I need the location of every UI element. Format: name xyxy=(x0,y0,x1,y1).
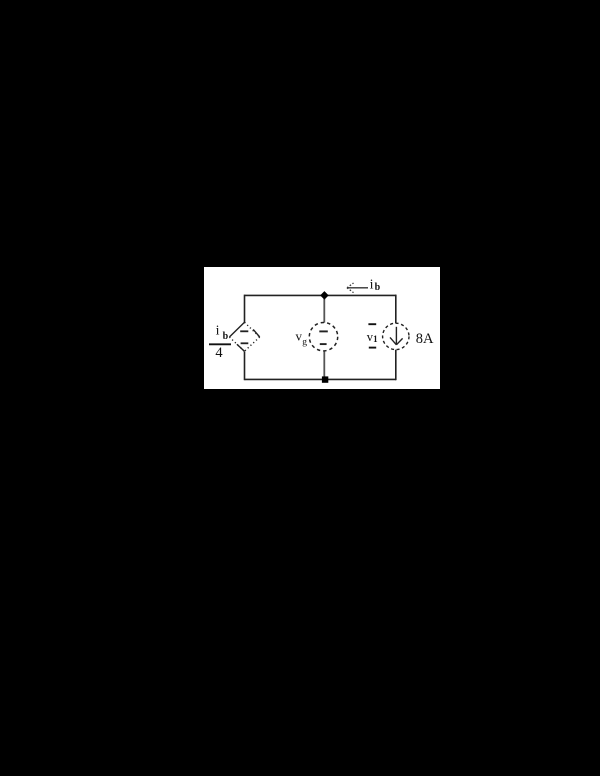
svg-text:b: b xyxy=(223,331,229,342)
svg-text:4: 4 xyxy=(215,345,223,361)
svg-text:i: i xyxy=(370,277,374,292)
svg-text:b: b xyxy=(375,282,381,293)
svg-text:8A: 8A xyxy=(416,331,434,347)
svg-text:i: i xyxy=(216,324,220,339)
svg-text:1: 1 xyxy=(373,334,378,344)
svg-text:g: g xyxy=(302,338,307,348)
